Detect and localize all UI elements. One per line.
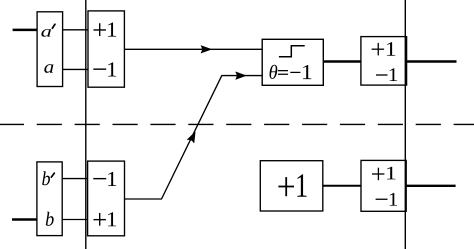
step function symbol [279, 46, 305, 57]
bias box +1 [260, 161, 323, 211]
layer boundary line right [404, 0, 406, 249]
weight label +1 bottom [94, 219, 106, 221]
threshold label theta [270, 65, 278, 79]
output weight label -1 [376, 74, 388, 76]
output weight box bottom (+1/-1) [361, 160, 406, 211]
wire: input b (thick) [12, 218, 37, 221]
weight label -1 [93, 68, 106, 70]
node label b' [42, 171, 50, 185]
wire: output top (thick) [407, 60, 457, 62]
weight box bottom (-1/+1) [88, 161, 125, 236]
wire: b to weight box [62, 219, 87, 221]
weight label +1 [94, 29, 106, 31]
threshold label minus [290, 71, 300, 73]
output weight box top (+1/-1) [361, 37, 407, 86]
output weight label +1 bottom [372, 173, 384, 175]
dashed separator line [0, 123, 474, 125]
weight label -1 bottom [93, 178, 106, 180]
bias label +1 (large) [278, 186, 294, 188]
layer boundary line left [85, 0, 87, 249]
input box a'/a [37, 12, 63, 87]
node label b [46, 212, 54, 226]
wire: a' to weight box [63, 29, 88, 31]
output weight label -1 bottom [376, 198, 388, 200]
threshold unit box [262, 39, 323, 85]
wire: input a' (thick) [13, 29, 38, 32]
wire: threshold to output weight box (thick) [323, 60, 361, 62]
node label a [44, 64, 53, 73]
arrowhead on diagonal (mid) [187, 130, 198, 143]
wire: bias to output weight box [323, 185, 361, 187]
wire: output bottom (thick) [406, 185, 455, 187]
arrowhead on top wire [201, 46, 211, 53]
weight box top (+1/-1) [88, 11, 124, 87]
wire: a to weight box [63, 68, 88, 70]
output weight label +1 [372, 48, 385, 50]
input box b'/b [37, 162, 62, 236]
wire: path from bottom weight box to threshold unit [125, 76, 263, 199]
threshold label = [278, 70, 288, 72]
threshold label 1 [303, 65, 311, 79]
arrowhead into threshold unit [236, 72, 246, 79]
wire: weight box to threshold unit [124, 48, 262, 50]
node label a' [41, 29, 51, 37]
wire: b' to weight box [62, 178, 87, 180]
